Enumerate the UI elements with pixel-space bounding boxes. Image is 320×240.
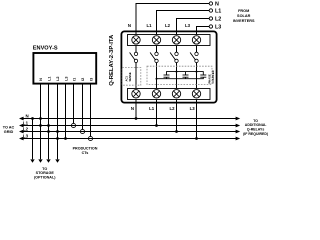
- wire envoy L2 drop to L2 bus and storage: [57, 84, 59, 159]
- wire envoy CT lead I3: [90, 84, 92, 136]
- AC1 sense dashed block: [122, 68, 141, 86]
- node junction L3 bus / envoy L2 drop: [56, 137, 59, 140]
- arrow to additional relays N: [236, 117, 241, 121]
- svg-text:L2: L2: [215, 17, 221, 23]
- node junction N bus / envoy N: [39, 117, 42, 120]
- svg-text:L2: L2: [23, 126, 29, 131]
- capacitor C2: [183, 75, 189, 77]
- wire relay input L2 riser: [177, 19, 210, 35]
- svg-text:SENSE: SENSE: [128, 72, 132, 81]
- svg-text:I1: I1: [73, 78, 77, 81]
- node junction N bus / storage tap: [31, 117, 34, 120]
- switch S1 relay contact N: [130, 46, 138, 89]
- terminal X7 output L2: [172, 90, 180, 98]
- node junction L2 bus / envoy L1 drop: [47, 130, 50, 133]
- wire L3 bus: [24, 138, 237, 140]
- wire L2 bus: [24, 131, 237, 133]
- svg-text:N: N: [131, 106, 134, 111]
- svg-text:N: N: [39, 78, 43, 81]
- node junction coupler bottom rail / L1: [156, 78, 158, 80]
- solar terminal N: [209, 2, 212, 5]
- arrow to storage N: [30, 159, 34, 162]
- arrow to AC grid L1: [19, 124, 24, 128]
- svg-text:L3: L3: [215, 25, 221, 31]
- svg-text:N: N: [128, 23, 131, 28]
- phase coupler dashed block: [147, 66, 212, 84]
- svg-text:L3: L3: [185, 23, 191, 28]
- arrow to additional relays L1: [236, 124, 241, 128]
- capacitor C3: [200, 75, 206, 77]
- terminal X8 output L3: [192, 90, 200, 98]
- terminal X2 input L1: [152, 36, 160, 44]
- CT3 production current transformer on L3: [88, 136, 92, 140]
- svg-text:N: N: [215, 2, 219, 8]
- arrow to additional relays L3: [236, 137, 241, 141]
- svg-text:I3: I3: [90, 78, 94, 81]
- wire C2 bottom stub: [185, 77, 187, 79]
- switch S4 relay contact L3: [190, 46, 198, 89]
- svg-text:L3: L3: [65, 76, 69, 80]
- arrow to AC grid L3: [19, 137, 24, 141]
- wire phase coupler top rail: [167, 72, 204, 75]
- switch S3 relay contact L2: [170, 46, 178, 89]
- relay K1 box Q-RELAY-2-3P-ITA: [121, 31, 216, 102]
- node junction coupler top rail / L2: [176, 71, 178, 73]
- node junction L3 bus / relay L3: [195, 137, 198, 140]
- svg-text:GRID: GRID: [4, 130, 14, 134]
- svg-text:L3: L3: [190, 106, 196, 111]
- node junction L1 bus / relay L1: [155, 124, 158, 127]
- node junction N bus / relay N: [135, 117, 138, 120]
- solar terminal L2: [209, 17, 212, 20]
- wire envoy L3 drop to L3 bus: [65, 84, 67, 139]
- svg-text:COUPLER: COUPLER: [211, 70, 215, 83]
- svg-text:INVERTERS: INVERTERS: [233, 19, 255, 23]
- terminal X4 input L3: [192, 36, 200, 44]
- svg-text:L1: L1: [149, 106, 155, 111]
- wire relay input N riser: [136, 4, 209, 35]
- wire C2 top stub: [185, 72, 187, 75]
- wire relay input L1 riser: [157, 11, 210, 35]
- arrow to storage L2: [46, 159, 50, 162]
- wire relay output L2 to L2 bus: [176, 100, 178, 132]
- envoy U1 box ENVOY-S: [33, 53, 96, 84]
- node junction L2 bus / relay L2: [175, 130, 178, 133]
- node junction L1 bus / envoy L1: [47, 124, 50, 127]
- svg-text:L1: L1: [48, 76, 52, 80]
- svg-text:Q-RELAY-2-3P-ITA: Q-RELAY-2-3P-ITA: [109, 34, 115, 86]
- wire storage tap from N bus: [32, 119, 34, 160]
- wire phase coupler bottom rail: [157, 77, 204, 79]
- arrow to additional relays L2: [236, 130, 241, 134]
- relay output terminal strip: [128, 89, 211, 100]
- svg-text:(IF REQUIRED): (IF REQUIRED): [243, 132, 268, 136]
- svg-text:L2: L2: [56, 76, 60, 80]
- wire N bus: [24, 118, 237, 120]
- svg-text:STORAGE: STORAGE: [36, 171, 55, 175]
- svg-text:FROM: FROM: [238, 9, 249, 13]
- arrow to storage L1: [38, 159, 42, 162]
- terminal X3 input L2: [172, 36, 180, 44]
- terminal X6 output L1: [152, 90, 160, 98]
- switch S2 relay contact L1: [150, 46, 158, 89]
- svg-text:L1: L1: [215, 9, 221, 15]
- wire relay input L3 riser: [197, 27, 210, 35]
- node junction L2 bus / envoy L2: [56, 130, 59, 133]
- svg-text:Q-RELAYs: Q-RELAYs: [247, 127, 264, 131]
- svg-text:ENVOY-S: ENVOY-S: [33, 46, 58, 52]
- svg-text:CTs: CTs: [82, 151, 89, 155]
- solar terminal L3: [209, 25, 212, 28]
- svg-text:L1: L1: [146, 23, 152, 28]
- wire relay output L1 to L1 bus: [156, 100, 158, 126]
- arrow to AC grid N: [19, 117, 24, 121]
- wire envoy N drop to N bus and storage: [40, 84, 42, 159]
- wire C1 bottom stub: [166, 77, 168, 79]
- svg-text:L2: L2: [169, 106, 175, 111]
- node junction L1 bus / envoy N drop: [39, 124, 42, 127]
- solar terminal L1: [209, 9, 212, 12]
- CT2 production current transformer on L2: [80, 129, 84, 133]
- svg-text:L1: L1: [23, 120, 29, 125]
- capacitor C1: [164, 75, 170, 77]
- wire envoy CT lead I1: [73, 84, 75, 123]
- node junction coupler top rail / L3: [196, 71, 198, 73]
- wire L1 bus: [24, 125, 237, 127]
- wire relay output L3 to L3 bus: [196, 100, 198, 139]
- svg-text:TO: TO: [42, 167, 47, 171]
- relay input terminal strip: [128, 35, 211, 46]
- terminal X5 output N: [132, 90, 140, 98]
- terminal X1 input N: [132, 36, 140, 44]
- svg-text:(OPTIONAL): (OPTIONAL): [34, 176, 56, 180]
- wire envoy CT lead I2: [82, 84, 84, 129]
- svg-text:L3: L3: [23, 133, 29, 138]
- arrow to storage L3: [55, 159, 59, 162]
- svg-text:L2: L2: [165, 23, 171, 28]
- node junction L3 bus / envoy L3: [64, 137, 67, 140]
- svg-text:SOLAR: SOLAR: [237, 14, 251, 18]
- wire envoy L1 drop to L1 bus and storage: [48, 84, 50, 159]
- CT1 production current transformer on L1: [71, 123, 75, 127]
- arrow to AC grid L2: [19, 130, 24, 134]
- svg-text:N: N: [26, 113, 29, 118]
- svg-text:I2: I2: [81, 78, 85, 81]
- wire relay output N to N bus: [135, 100, 137, 119]
